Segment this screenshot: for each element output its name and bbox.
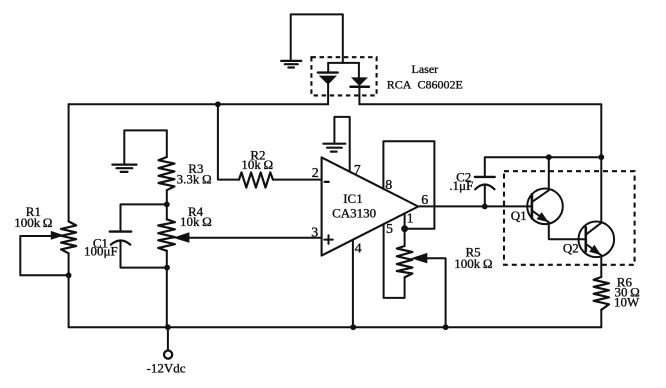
svg-text:1: 1 [407, 211, 414, 226]
svg-text:3: 3 [311, 225, 318, 240]
svg-text:100k Ω: 100k Ω [454, 256, 492, 271]
svg-text:8: 8 [385, 178, 392, 193]
svg-text:.1μF: .1μF [449, 178, 473, 193]
svg-text:Laser: Laser [412, 62, 439, 76]
svg-text:100k Ω: 100k Ω [14, 215, 52, 230]
svg-text:7: 7 [354, 163, 361, 178]
svg-text:10k Ω: 10k Ω [241, 157, 273, 172]
svg-text:10W: 10W [614, 294, 640, 309]
svg-text:4: 4 [355, 241, 362, 256]
svg-text:5: 5 [386, 222, 393, 237]
svg-text:CA3130: CA3130 [332, 205, 376, 220]
svg-text:100μF: 100μF [84, 244, 118, 259]
svg-text:10k Ω: 10k Ω [180, 214, 212, 229]
svg-text:6: 6 [421, 193, 428, 208]
svg-text:2: 2 [312, 166, 319, 181]
svg-text:Q2: Q2 [563, 240, 579, 255]
svg-text:IC1: IC1 [343, 191, 363, 206]
svg-text:-12Vdc: -12Vdc [147, 360, 186, 375]
svg-text:RCA C86002E: RCA C86002E [387, 78, 463, 92]
svg-text:3.3k Ω: 3.3k Ω [177, 172, 212, 187]
svg-text:Q1: Q1 [511, 208, 527, 223]
